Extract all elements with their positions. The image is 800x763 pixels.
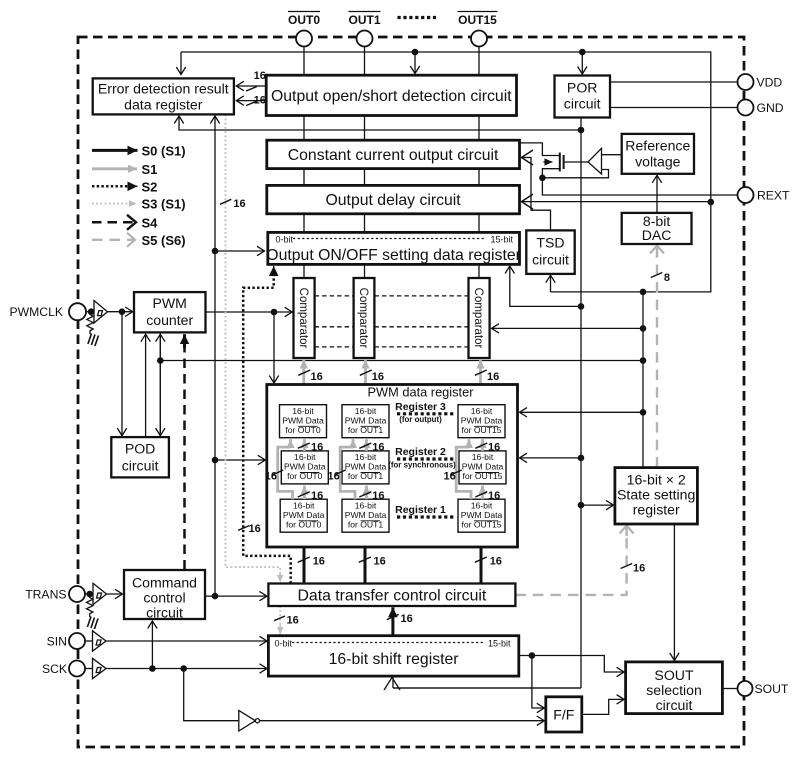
- svg-text:data register: data register: [124, 96, 203, 112]
- svg-text:Comparator: Comparator: [357, 288, 369, 349]
- svg-text:TRANS: TRANS: [25, 588, 66, 602]
- svg-text:16: 16: [372, 441, 384, 453]
- svg-text:16-bit: 16-bit: [355, 406, 377, 416]
- svg-text:selection: selection: [646, 682, 702, 698]
- svg-text:Comparator: Comparator: [297, 288, 309, 349]
- svg-text:16: 16: [311, 490, 323, 502]
- svg-text:16: 16: [488, 441, 500, 453]
- svg-text:PWM data register: PWM data register: [368, 385, 475, 400]
- svg-text:16-bit: 16-bit: [294, 452, 316, 462]
- svg-text:circuit: circuit: [656, 697, 693, 713]
- svg-text:circuit: circuit: [532, 251, 569, 267]
- svg-text:16: 16: [372, 490, 384, 502]
- svg-text:16: 16: [487, 371, 499, 383]
- svg-text:PWM Data: PWM Data: [462, 462, 504, 472]
- svg-text:PWM Data: PWM Data: [284, 462, 326, 472]
- svg-text:0-bit: 0-bit: [275, 638, 293, 648]
- svg-text:SIN: SIN: [47, 635, 67, 649]
- svg-text:POD: POD: [125, 441, 156, 457]
- svg-text:16-bit: 16-bit: [472, 452, 494, 462]
- svg-text:F/F: F/F: [553, 706, 575, 722]
- svg-text:16: 16: [444, 471, 456, 483]
- svg-text:0-bit: 0-bit: [276, 235, 294, 245]
- svg-text:counter: counter: [146, 312, 193, 328]
- svg-text:16: 16: [287, 615, 299, 627]
- svg-text:16: 16: [311, 371, 323, 383]
- svg-text:16: 16: [372, 371, 384, 383]
- svg-text:PWM Data: PWM Data: [345, 415, 387, 425]
- svg-text:S0 (S1): S0 (S1): [142, 143, 186, 158]
- svg-text:PWMCLK: PWMCLK: [10, 305, 64, 319]
- svg-text:PWM Data: PWM Data: [461, 415, 503, 425]
- svg-text:16: 16: [374, 555, 386, 567]
- svg-text:16: 16: [254, 94, 266, 106]
- svg-text:voltage: voltage: [635, 153, 681, 169]
- svg-text:Output open/short detection ci: Output open/short detection circuit: [271, 88, 512, 105]
- svg-text:PWM Data: PWM Data: [282, 415, 324, 425]
- svg-text:Output delay circuit: Output delay circuit: [325, 192, 461, 209]
- svg-text:Output ON/OFF setting data reg: Output ON/OFF setting data register: [266, 247, 521, 264]
- svg-text:16-bit: 16-bit: [355, 452, 377, 462]
- svg-text:15-bit: 15-bit: [490, 235, 513, 245]
- svg-text:Comparator: Comparator: [472, 288, 484, 349]
- svg-text:PWM: PWM: [152, 295, 186, 311]
- svg-text:OUT0: OUT0: [288, 13, 320, 27]
- svg-text:TSD: TSD: [536, 234, 564, 250]
- svg-text:VDD: VDD: [757, 76, 783, 90]
- svg-text:8: 8: [664, 272, 670, 284]
- svg-text:register: register: [633, 501, 680, 517]
- svg-text:16: 16: [490, 555, 502, 567]
- svg-text:SOUT: SOUT: [654, 667, 694, 683]
- svg-text:16: 16: [488, 490, 500, 502]
- svg-text:SOUT: SOUT: [755, 682, 789, 696]
- svg-text:PWM Data: PWM Data: [345, 462, 387, 472]
- svg-text:SCK: SCK: [42, 662, 67, 676]
- svg-text:(for synchronous): (for synchronous): [388, 460, 456, 469]
- svg-text:16: 16: [633, 563, 645, 575]
- svg-text:16: 16: [311, 441, 323, 453]
- svg-text:(for output): (for output): [399, 415, 442, 424]
- svg-text:16-bit: 16-bit: [471, 406, 493, 416]
- svg-text:16: 16: [265, 471, 277, 483]
- svg-text:DAC: DAC: [642, 227, 672, 243]
- svg-text:16-bit: 16-bit: [292, 406, 314, 416]
- svg-text:16-bit shift register: 16-bit shift register: [329, 651, 459, 668]
- svg-text:16: 16: [233, 198, 245, 210]
- svg-text:S1: S1: [142, 162, 158, 177]
- svg-text:control: control: [143, 590, 185, 606]
- svg-text:GND: GND: [757, 101, 784, 115]
- svg-text:S2: S2: [142, 179, 158, 194]
- svg-text:Error detection result: Error detection result: [98, 80, 229, 96]
- svg-text:circuit: circuit: [122, 458, 159, 474]
- svg-text:State setting: State setting: [617, 486, 695, 502]
- svg-text:PWM Data: PWM Data: [283, 510, 325, 520]
- svg-text:REXT: REXT: [757, 189, 790, 203]
- svg-text:15-bit: 15-bit: [488, 638, 511, 648]
- svg-text:circuit: circuit: [564, 96, 601, 112]
- svg-text:Constant current output circui: Constant current output circuit: [288, 147, 499, 164]
- svg-text:16: 16: [254, 70, 266, 82]
- svg-text:16: 16: [249, 523, 261, 535]
- svg-text:S5 (S6): S5 (S6): [142, 233, 186, 248]
- svg-text:16: 16: [328, 471, 340, 483]
- svg-text:S3 (S1): S3 (S1): [142, 197, 186, 212]
- svg-text:Command: Command: [132, 575, 197, 591]
- svg-text:PWM Data: PWM Data: [461, 510, 503, 520]
- svg-text:16: 16: [401, 613, 413, 625]
- svg-text:Data transfer control circuit: Data transfer control circuit: [298, 588, 487, 605]
- svg-text:Register 1: Register 1: [395, 504, 446, 516]
- svg-text:PWM Data: PWM Data: [345, 510, 387, 520]
- svg-text:16: 16: [313, 555, 325, 567]
- svg-text:Register 3: Register 3: [395, 401, 446, 413]
- svg-text:16-bit × 2: 16-bit × 2: [627, 471, 686, 487]
- svg-text:OUT15: OUT15: [458, 13, 497, 27]
- svg-text:POR: POR: [567, 80, 598, 96]
- svg-text:S4: S4: [142, 215, 159, 230]
- svg-text:circuit: circuit: [146, 605, 183, 621]
- svg-text:Reference: Reference: [625, 137, 690, 153]
- svg-text:Register 2: Register 2: [395, 446, 446, 458]
- svg-text:OUT1: OUT1: [348, 13, 380, 27]
